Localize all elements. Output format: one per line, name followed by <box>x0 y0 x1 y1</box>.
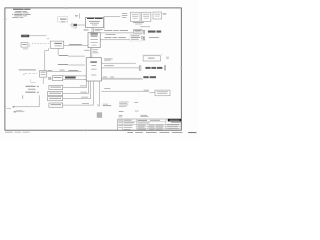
text under logo <box>167 122 181 129</box>
CPU block U1 Mobile Processor <box>86 17 104 27</box>
IDE label <box>104 59 112 61</box>
CRT wire <box>68 55 85 57</box>
DDR size note <box>149 36 159 39</box>
ICH block ICH4-M <box>86 58 101 81</box>
ICH fan vertical 2 <box>86 81 88 88</box>
KBC wire label <box>81 96 88 99</box>
fold tick bottom border <box>84 129 87 132</box>
CPU support chip box (Dothan) <box>58 17 68 22</box>
FSB bus verticals CPU to GMCH <box>92 28 94 33</box>
wire GMCH to DDR box D <box>100 32 133 34</box>
fold tick left border <box>3 18 6 20</box>
graphics interface box <box>47 39 64 49</box>
small note right of voltage table <box>134 101 138 104</box>
memory bus label upper <box>104 29 112 32</box>
fold tick top border <box>65 7 67 10</box>
SMBus text block <box>144 90 149 92</box>
audio row box <box>48 92 63 96</box>
ICH fan vertical 5 <box>93 81 95 105</box>
SODIMM connector upper <box>142 31 145 35</box>
tiny note right of box C <box>163 13 167 15</box>
drop from TV dashes <box>31 79 36 82</box>
DDR box E <box>130 34 142 41</box>
LCD caption <box>23 48 28 51</box>
faint note under box C <box>140 25 150 28</box>
hub link labels <box>84 49 98 53</box>
audio wire label <box>80 91 87 94</box>
border tick at wire <box>4 106 7 108</box>
USB row wire <box>63 76 86 80</box>
short wire stub at CPU left <box>79 14 81 19</box>
HDD dashed top <box>142 54 164 56</box>
modem bold label <box>143 76 148 78</box>
memory bus label lower <box>104 36 111 39</box>
TV out wire label 1 <box>48 69 52 72</box>
caption under memory boxes <box>133 22 144 24</box>
KBC row box <box>48 97 63 101</box>
memory box C <box>153 12 162 19</box>
LVDS wire label <box>69 43 82 46</box>
fold tick right border <box>180 67 183 69</box>
BIOS wire label <box>82 102 89 105</box>
wire down from jacks <box>13 95 40 106</box>
LVDS dark header box <box>21 35 29 38</box>
DVI wire <box>68 64 85 66</box>
arrowhead left <box>12 106 14 108</box>
hub link verticals GMCH to ICH <box>91 48 92 58</box>
USB row box <box>52 76 62 81</box>
CRT label <box>59 54 68 57</box>
crystal X1 <box>69 23 85 28</box>
sheet border frame <box>5 8 181 130</box>
mini PCI bold label <box>145 67 150 69</box>
DVI label <box>58 63 68 66</box>
second arrow label <box>16 109 22 112</box>
TV out wire <box>47 71 82 73</box>
title block pre-notes <box>119 111 139 112</box>
LAN row box <box>49 85 63 89</box>
wire CPU to host bus label <box>104 16 121 18</box>
title block small note <box>119 115 123 117</box>
USB dark bus label <box>65 77 76 79</box>
notes text block top-left <box>12 9 31 18</box>
LCD panel box <box>21 43 28 48</box>
title block outline <box>118 119 182 130</box>
arrow into SODIMM connector <box>142 36 144 39</box>
voltage note table <box>119 102 129 107</box>
BIOS row box <box>49 103 63 107</box>
power rail text <box>103 104 112 106</box>
clock label on CPU wire <box>75 15 78 17</box>
DDR SO-DIMM bold label <box>148 31 156 33</box>
FSB label <box>84 29 103 31</box>
mini PCI label above wire <box>104 64 114 67</box>
mini PCI connector right <box>164 65 165 70</box>
TV encoder bottom stub <box>42 77 44 84</box>
LVDS wire to GMCH <box>64 45 88 47</box>
ICH left edge stubs <box>85 76 87 80</box>
SMBus wire <box>102 90 144 92</box>
DDR box D <box>134 29 143 33</box>
GMCH block 855GM <box>88 33 100 48</box>
second arrow wire <box>14 111 25 113</box>
memory box B <box>142 12 151 21</box>
jack labels stack <box>26 86 36 93</box>
ICH fan vertical 3 <box>88 81 90 94</box>
BIOS row wire <box>63 104 94 106</box>
AC97 wire <box>102 79 144 81</box>
USB header row: small square <box>49 77 51 79</box>
approval stamp <box>97 113 102 118</box>
pre-title note fragment <box>140 115 148 117</box>
colon dots <box>22 96 23 99</box>
HDD side note <box>166 57 169 59</box>
LCD cable curve <box>28 43 31 47</box>
wire from LVDS box <box>29 35 46 37</box>
LVDS cable dashes <box>32 42 49 44</box>
LAN wire label <box>80 85 86 88</box>
small note near border <box>7 107 11 110</box>
title block cell texts <box>118 120 163 130</box>
IDE wire <box>102 62 136 64</box>
wire GMCH to DDR box E <box>100 39 130 41</box>
HDD box <box>143 56 160 61</box>
mini PCI wire <box>102 67 140 69</box>
ICH fan vertical 4 <box>90 81 92 99</box>
TV cable dashes <box>25 73 38 75</box>
KBC row wire <box>63 98 91 100</box>
SMBus label <box>104 87 110 90</box>
host bus drop vertical <box>103 17 105 30</box>
memory bus label mid <box>106 33 116 36</box>
TV cable note <box>19 69 36 72</box>
modem wire <box>102 77 143 79</box>
host bus text block <box>122 13 128 18</box>
power rail stubs bottom <box>98 81 100 107</box>
vertical graphics box to TV encoder <box>45 48 49 70</box>
wire into thermal box <box>149 91 155 93</box>
TOSHIBA logo bar <box>168 119 182 122</box>
mini PCI connector left <box>139 65 141 71</box>
modem label above wire <box>103 76 107 79</box>
jack marks <box>37 86 39 93</box>
memory box A <box>130 12 140 21</box>
LAN row wire <box>63 87 87 89</box>
TV out wire label 2 <box>68 69 78 72</box>
vertical from graphics box to CRT row <box>57 48 59 55</box>
SODIMM connector lower <box>142 36 145 40</box>
audio row wire <box>63 93 89 95</box>
footer text under border right <box>127 132 196 133</box>
thermal box <box>155 90 170 96</box>
TV encoder box <box>40 71 47 78</box>
footer text under border left <box>5 131 30 134</box>
